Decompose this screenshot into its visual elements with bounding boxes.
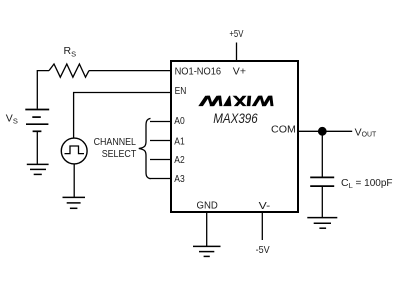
svg-text:V-: V-: [259, 200, 271, 212]
svg-text:COM: COM: [271, 123, 296, 135]
svg-text:SELECT: SELECT: [102, 148, 137, 160]
resistor RS: [49, 64, 89, 77]
svg-text:CHANNEL: CHANNEL: [94, 136, 137, 148]
junction node: [318, 127, 327, 136]
ground (pulse source): [63, 197, 86, 208]
wire resistor to NO1 pin: [89, 70, 171, 72]
svg-text:NO1-NO16: NO1-NO16: [175, 65, 222, 77]
svg-text:V: V: [355, 127, 362, 139]
IC U1 MAX396 body: [171, 61, 298, 212]
wire +5V to V+: [236, 43, 238, 62]
svg-text:V+: V+: [233, 65, 246, 77]
wire VS to resistor: [37, 71, 49, 109]
wire V- to -5V: [261, 213, 263, 241]
svg-text:RS: RS: [64, 45, 77, 58]
svg-text:-5V: -5V: [256, 244, 270, 256]
ground (GND pin): [193, 246, 221, 256]
svg-text:A0: A0: [174, 115, 185, 127]
wire EN to pulse source: [74, 93, 171, 139]
svg-text:EN: EN: [175, 85, 187, 97]
svg-text:MAX396: MAX396: [213, 110, 258, 126]
wire A0: [150, 121, 171, 123]
capacitor CL: [310, 177, 334, 186]
wire GND pin down: [206, 213, 208, 247]
ground (battery): [27, 164, 49, 174]
svg-text:OUT: OUT: [362, 129, 377, 138]
wire pulse source to ground: [73, 164, 75, 197]
brace channel select: [139, 118, 151, 178]
wire COM to VOUT: [298, 130, 352, 132]
wire node to capacitor: [321, 131, 323, 177]
Maxim logo: [198, 96, 273, 106]
wire A3: [150, 178, 171, 180]
pulse waveform symbol: [65, 146, 85, 154]
wire battery to ground: [36, 131, 38, 164]
svg-text:A1: A1: [174, 135, 185, 147]
pulse generator source: [61, 138, 87, 164]
svg-text:A3: A3: [174, 173, 185, 185]
svg-text:+5V: +5V: [229, 28, 243, 40]
svg-text:A2: A2: [174, 154, 185, 166]
svg-text:CL = 100pF: CL = 100pF: [341, 177, 393, 190]
battery VS: [25, 110, 49, 132]
svg-text:GND: GND: [197, 200, 219, 212]
svg-text:VS: VS: [6, 112, 18, 125]
ground (capacitor): [307, 218, 337, 229]
wire capacitor to ground: [321, 186, 323, 217]
wire A2: [150, 159, 171, 161]
wire A1: [150, 140, 171, 142]
